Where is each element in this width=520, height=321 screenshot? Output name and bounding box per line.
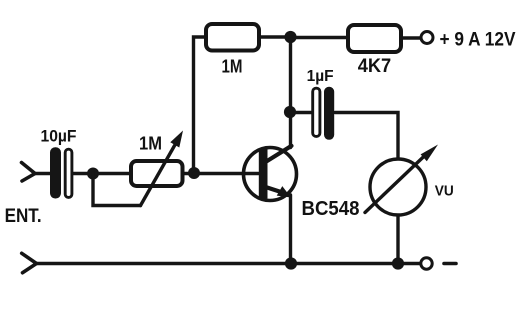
terminal minus xyxy=(421,258,432,269)
wire emitter down xyxy=(289,195,292,264)
node B junction xyxy=(188,167,200,179)
wire R1 to node C xyxy=(261,35,290,38)
node F junction (meter/rail) xyxy=(392,257,404,269)
wire bottom rail xyxy=(36,262,421,265)
resistor R2 4K7 xyxy=(348,25,401,52)
wire node B up to R1 xyxy=(194,37,205,171)
svg-text:1µF: 1µF xyxy=(307,68,334,85)
wire node D to C2 xyxy=(290,111,312,114)
wire meter to bottom rail xyxy=(396,216,399,264)
wire R2 to +V terminal xyxy=(403,36,421,39)
node E junction (emitter/rail) xyxy=(285,257,297,269)
potentiometer P1 wiper arrow xyxy=(141,131,184,206)
svg-text:BC548: BC548 xyxy=(302,198,360,220)
input arrow top (ENT.) xyxy=(22,163,36,182)
svg-text:4K7: 4K7 xyxy=(358,56,392,77)
svg-text:VU: VU xyxy=(435,183,454,200)
node D junction (1uF tap) xyxy=(284,106,296,118)
input arrow bottom xyxy=(22,253,37,272)
transistor Q1 BC548 xyxy=(244,146,297,201)
wire P1 to node B xyxy=(185,172,195,175)
svg-text:1M: 1M xyxy=(139,134,162,154)
capacitor C1 10uF xyxy=(50,147,72,198)
wire input to C1 xyxy=(34,172,51,175)
svg-text:ENT.: ENT. xyxy=(5,206,42,227)
label minus xyxy=(444,262,456,266)
potentiometer P1 1M body xyxy=(131,161,183,186)
node C junction (collector rail) xyxy=(284,31,296,43)
capacitor C2 1uF xyxy=(313,87,335,140)
resistor R1 1M xyxy=(206,24,259,51)
wire C1 to node A xyxy=(73,172,93,175)
wire node C to R2 xyxy=(291,36,347,39)
wire collector up xyxy=(289,37,292,148)
meter M1 VU xyxy=(365,145,438,216)
svg-text:10µF: 10µF xyxy=(41,127,77,146)
node A junction xyxy=(87,168,99,180)
svg-text:+ 9 A 12V: + 9 A 12V xyxy=(440,29,516,50)
wire C2 to meter xyxy=(335,113,398,159)
wire wiper return xyxy=(93,174,141,206)
wire node A to P1 xyxy=(93,172,130,175)
terminal +V xyxy=(421,32,433,44)
svg-text:1M: 1M xyxy=(222,56,243,76)
wire node B to base xyxy=(194,172,259,175)
